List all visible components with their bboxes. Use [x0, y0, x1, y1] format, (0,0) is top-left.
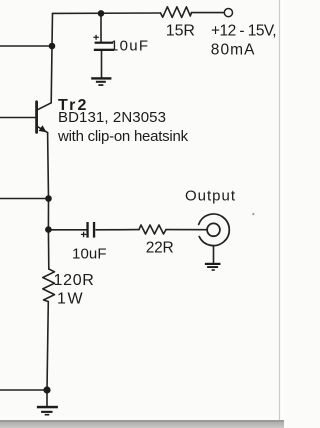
svg-text:+12 - 15V,: +12 - 15V,: [211, 22, 276, 39]
svg-text:with clip-on heatsink: with clip-on heatsink: [57, 128, 189, 145]
svg-text:120R: 120R: [54, 272, 95, 289]
svg-text:22R: 22R: [146, 240, 174, 257]
svg-text:BD131, 2N3053: BD131, 2N3053: [58, 109, 166, 126]
svg-text:15R: 15R: [166, 23, 195, 40]
svg-text:Output: Output: [185, 187, 236, 204]
svg-text:10uF: 10uF: [72, 245, 107, 262]
svg-text:80mA: 80mA: [211, 42, 256, 59]
svg-text:10uF: 10uF: [110, 38, 149, 55]
svg-text:1W: 1W: [57, 291, 84, 308]
